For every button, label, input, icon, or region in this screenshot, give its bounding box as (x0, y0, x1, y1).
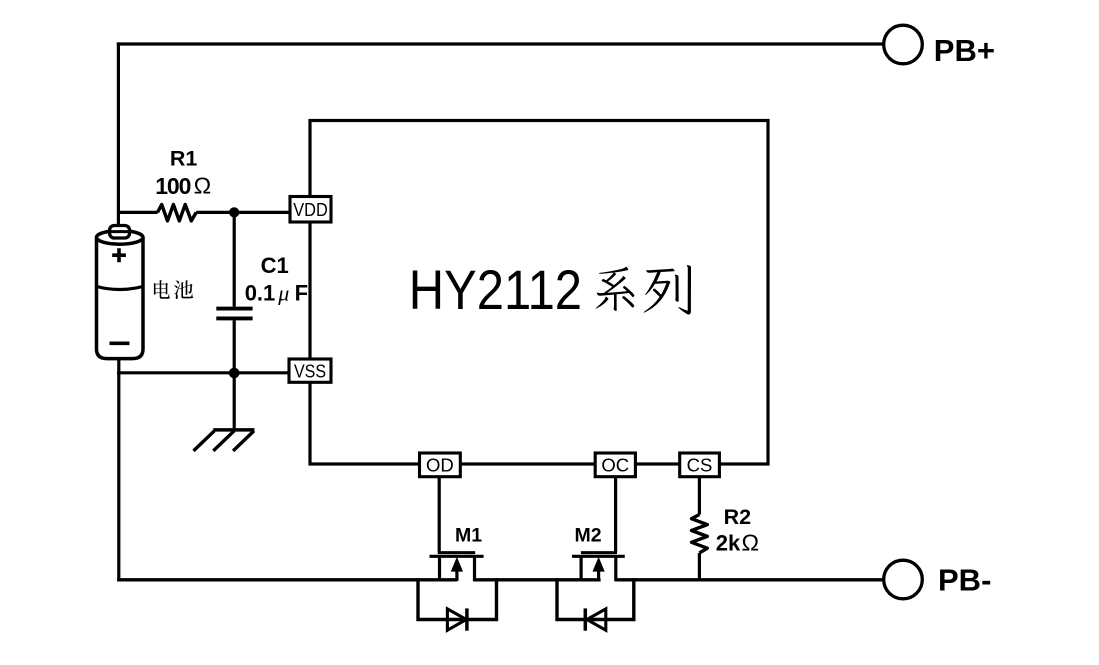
svg-text:PB+: PB+ (934, 33, 995, 68)
svg-text:100: 100 (155, 173, 191, 199)
svg-text:R1: R1 (170, 147, 198, 171)
wire VSS horizontal (117, 371, 289, 374)
battery plus symbol (112, 248, 126, 262)
ground symbol (213, 428, 254, 432)
transistor M1 source stub (438, 556, 441, 581)
transistor M1 body arrow (451, 557, 463, 572)
svg-text:2k: 2k (716, 531, 741, 556)
svg-text:C1: C1 (261, 253, 289, 278)
capacitor C1 plates (216, 307, 252, 311)
svg-text:OC: OC (601, 455, 629, 476)
label 系列 (596, 267, 635, 311)
battery top rim ellipse (97, 231, 144, 245)
svg-text:PB-: PB- (938, 563, 991, 598)
wire CS to R2 (698, 477, 701, 515)
battery divider line (97, 287, 144, 290)
svg-text:Ω: Ω (194, 173, 212, 199)
svg-text:R2: R2 (724, 505, 752, 529)
wire junction down to C1 (233, 212, 236, 306)
transistor M2 source stub (614, 556, 617, 581)
IC U1 HY2112 body (310, 121, 768, 465)
wire left vertical from top rail to battery (117, 42, 120, 229)
wire R1 to VDD (196, 211, 290, 214)
pin VSS box (289, 359, 331, 382)
battery terminal nub (110, 226, 130, 239)
transistor M2 gate bar (581, 551, 617, 554)
wire OC to M2 gate (614, 477, 617, 553)
svg-text:M1: M1 (455, 525, 482, 547)
svg-text:OD: OD (426, 455, 454, 476)
diode D1 body-diode loop of M1 (418, 578, 497, 619)
svg-text:VSS: VSS (294, 360, 326, 381)
svg-text:Ω: Ω (742, 530, 760, 556)
terminal PB- circle (884, 560, 923, 599)
pin OD box (420, 453, 461, 477)
svg-text:M2: M2 (574, 525, 601, 547)
node junction VSS/C1/ground (229, 368, 240, 379)
wire battery to R1 (118, 211, 157, 214)
terminal PB+ circle (884, 25, 923, 64)
resistor R2 zigzag (692, 515, 708, 554)
svg-text:μ: μ (277, 280, 289, 305)
svg-text:VDD: VDD (293, 199, 328, 220)
wire C1 to VSS node (233, 320, 236, 374)
wire OD to M1 gate (438, 477, 441, 553)
transistor M2 channel bar (572, 555, 625, 558)
transistor M2 body arrow (593, 557, 605, 572)
pin VDD box (290, 197, 331, 223)
pin CS box (680, 453, 720, 477)
battery minus symbol (110, 341, 130, 345)
wire top rail PB+ (117, 42, 884, 45)
transistor M1 gate bar (438, 551, 475, 554)
resistor R1 zigzag (158, 205, 197, 221)
svg-text:HY2112: HY2112 (409, 258, 582, 321)
svg-text:F: F (295, 280, 308, 305)
wire battery bottom to PB- rail (117, 357, 120, 581)
transistor M1 channel bar (430, 555, 484, 558)
svg-text:CS: CS (687, 455, 713, 476)
diode D2 body-diode loop of M2 (557, 578, 634, 619)
svg-text:0.1: 0.1 (245, 280, 276, 305)
wire PB- rail segment M2 to PB- terminal (616, 578, 884, 581)
node junction R1/VDD/C1 (229, 207, 239, 217)
pin OC box (595, 453, 635, 477)
transistor M1 drain stub (473, 556, 476, 581)
wire R2 to PB- rail (698, 553, 701, 581)
label battery 电池 (154, 280, 170, 299)
transistor M2 drain stub (579, 556, 582, 581)
wire node to ground (233, 373, 236, 430)
wire PB- rail segment battery to M1 (117, 578, 457, 581)
battery BT1 cell body (97, 237, 144, 358)
wire PB- rail segment M1 to M2 (475, 578, 601, 581)
